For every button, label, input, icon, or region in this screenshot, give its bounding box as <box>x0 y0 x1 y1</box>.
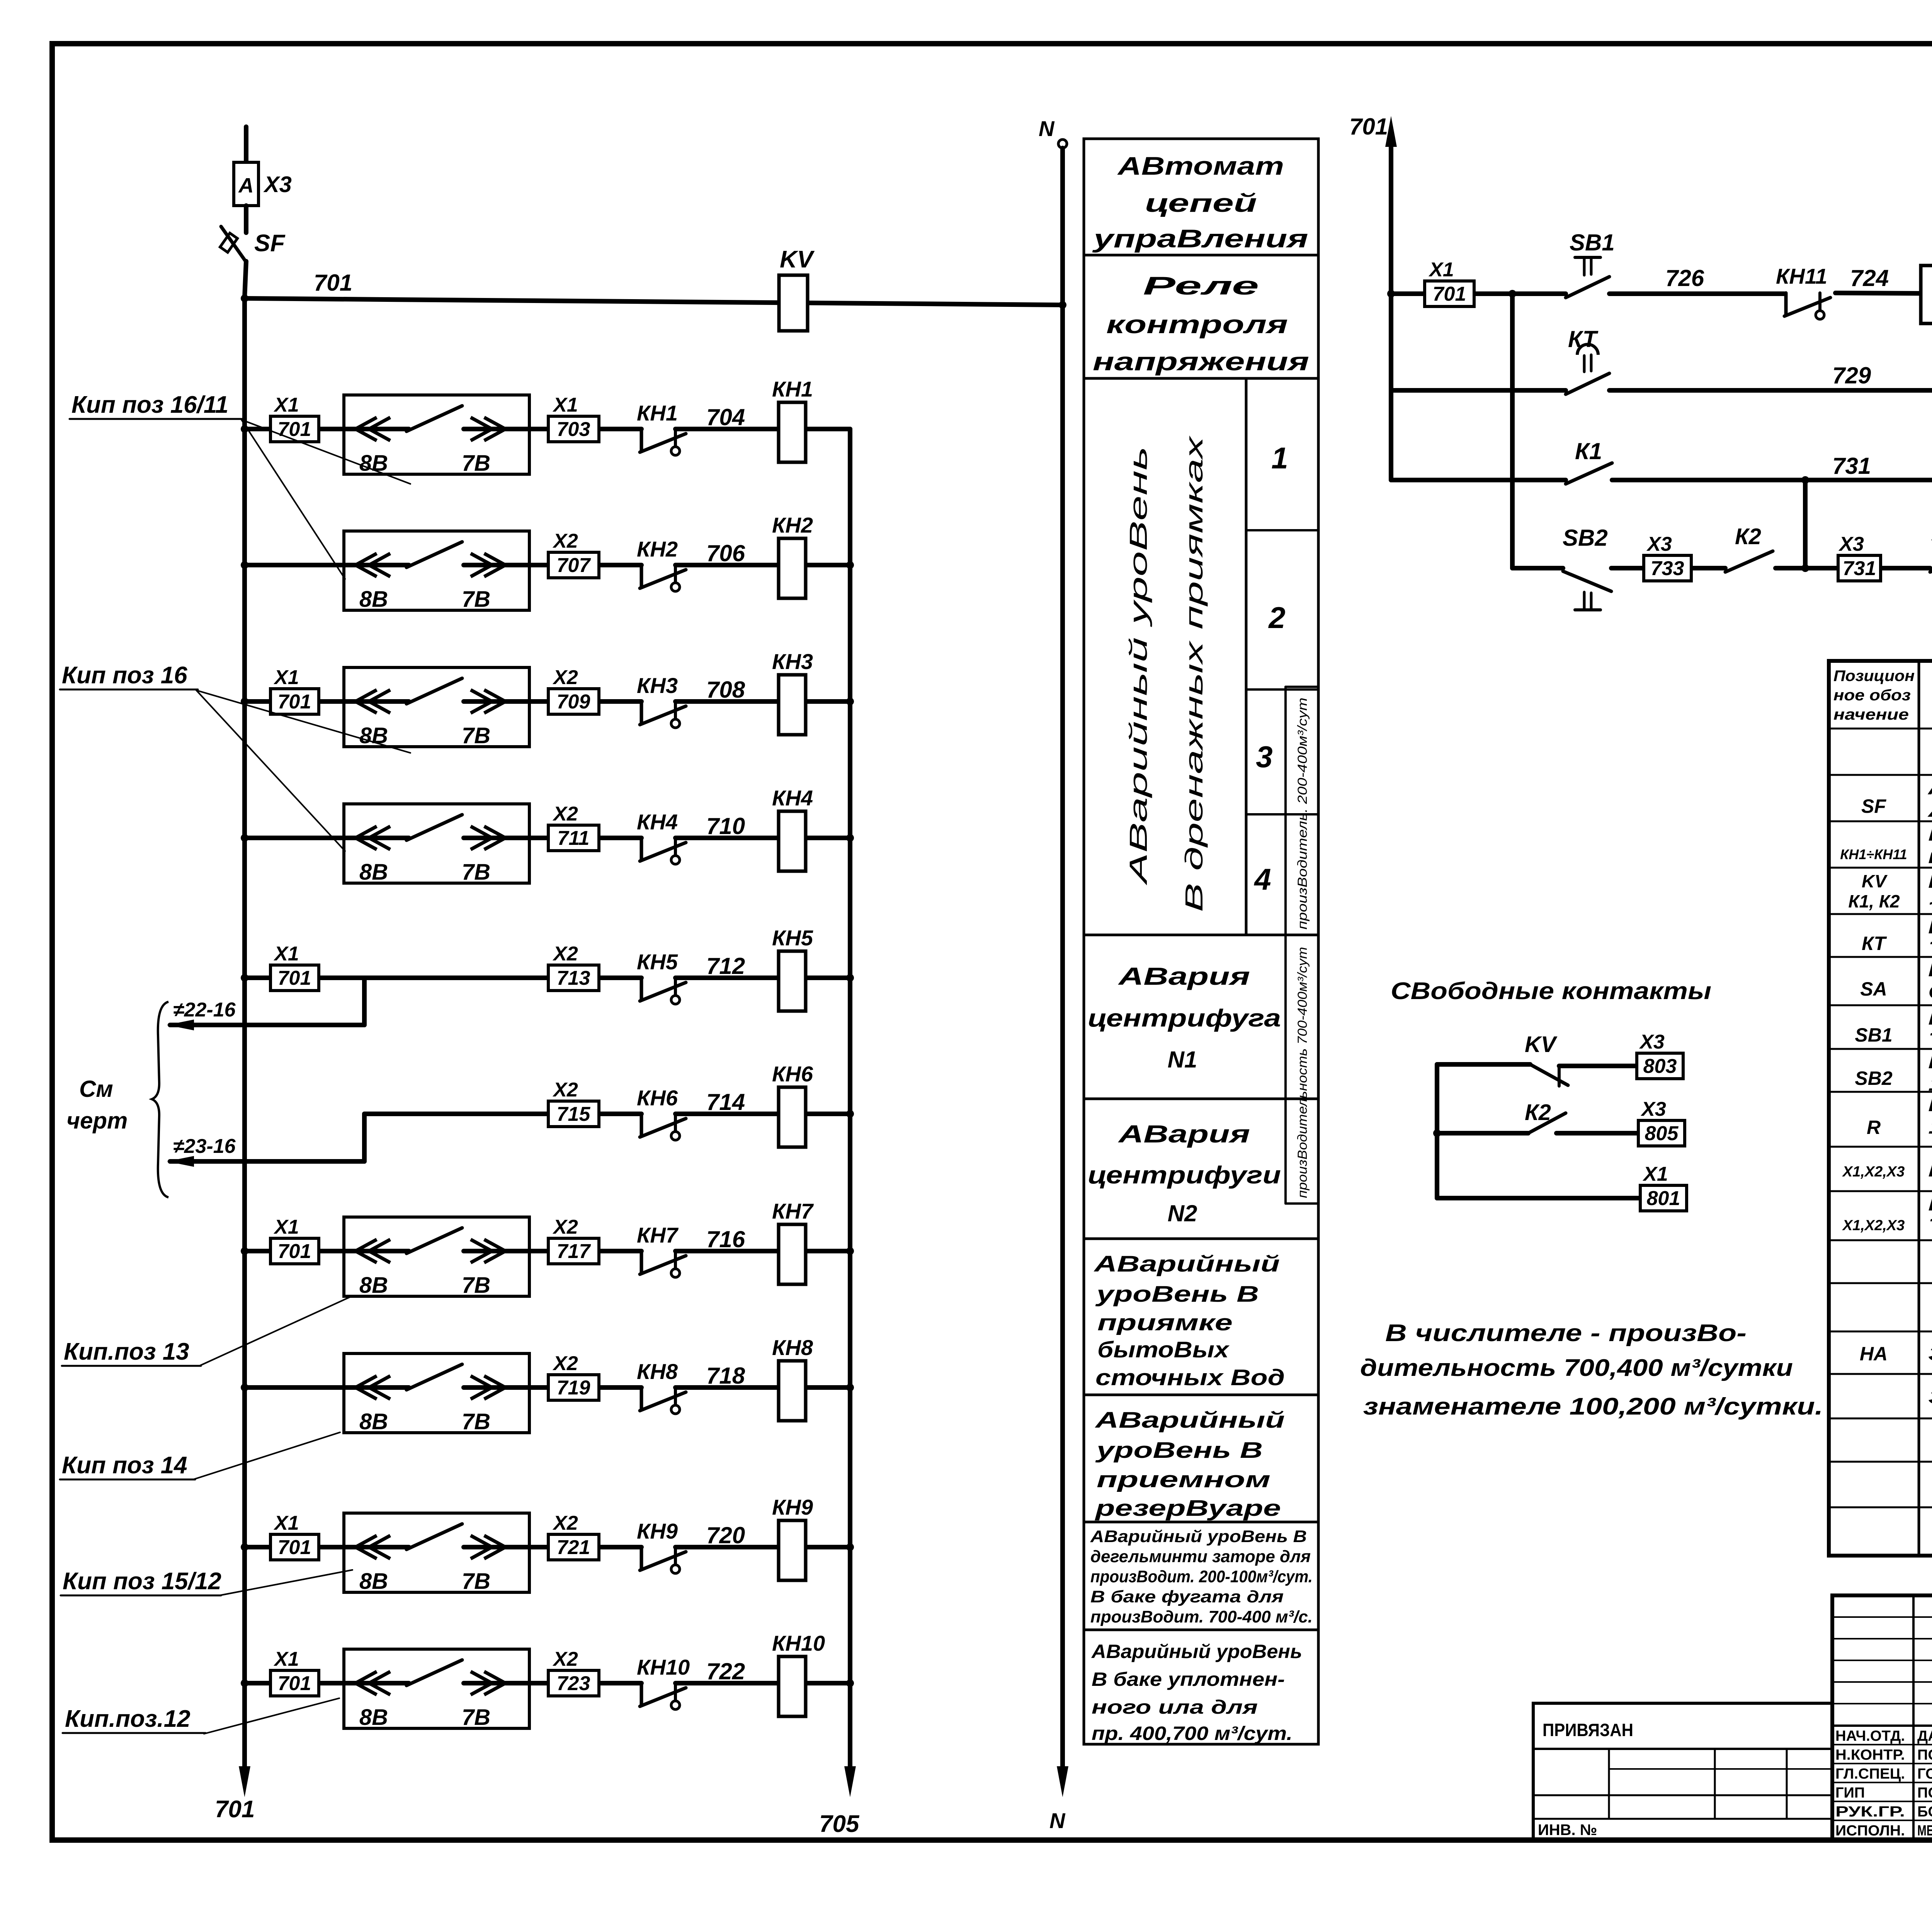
svg-text:Схема Д103 рук.реВ.ТУ16.526.04: Схема Д103 рук.реВ.ТУ16.526.047-74 <box>1928 981 1932 1003</box>
svg-text:701: 701 <box>278 967 311 989</box>
svg-text:КН7: КН7 <box>637 1223 679 1247</box>
svg-text:X1: X1 <box>273 1216 299 1238</box>
svg-text:N: N <box>1049 1808 1066 1833</box>
connector X1 pin 701 rung 9 <box>270 1534 319 1560</box>
svg-text:знаменателе 100,200 м³/сутки.: знаменателе 100,200 м³/сутки. <box>1363 1393 1823 1420</box>
svg-text:ное обоз: ное обоз <box>1833 687 1911 704</box>
svg-text:SА: SА <box>1860 978 1887 1000</box>
wire stub above connector A/X3 <box>244 127 248 162</box>
svg-text:Кип поз 16/11: Кип поз 16/11 <box>71 392 228 418</box>
svg-text:ГОЛЬЦМАН: ГОЛЬЦМАН <box>1917 1766 1932 1782</box>
svg-text:КН4: КН4 <box>772 786 813 810</box>
conductor 701 vertical (right section) with up arrow <box>1389 129 1393 480</box>
node junction of bus 701 <box>241 295 248 302</box>
svg-text:7В: 7В <box>462 1409 490 1434</box>
contact КН3 <box>640 701 643 724</box>
contact KV <box>1530 1064 1568 1085</box>
svg-text:X1: X1 <box>273 1648 299 1670</box>
svg-text:712: 712 <box>706 953 745 979</box>
svg-text:БОЕВА: БОЕВА <box>1917 1804 1932 1820</box>
svg-text:≠23-16: ≠23-16 <box>173 1135 236 1158</box>
svg-text:произВодит. 200-100м³/сут.: произВодит. 200-100м³/сут. <box>1090 1567 1313 1586</box>
switch SA <box>1930 553 1932 572</box>
svg-text:714: 714 <box>706 1089 745 1115</box>
wire rung 5 from contact КН5 to coil and bus 705 <box>675 975 850 980</box>
svg-text:731: 731 <box>1843 557 1876 580</box>
cell Аварийный уровень в дренажных приямках (rotated) <box>1245 378 1248 935</box>
svg-text:уроВень В: уроВень В <box>1095 1282 1259 1307</box>
connector X1 pin 801 <box>1640 1185 1687 1211</box>
svg-text:X1: X1 <box>273 394 299 416</box>
wire X1 801 row <box>1437 1196 1640 1200</box>
svg-text:X2: X2 <box>552 1216 578 1238</box>
svg-text:701: 701 <box>278 418 311 441</box>
level sensor switch rung 2 (КИП) with plugs 8В 7В <box>344 531 529 610</box>
svg-text:напряжения: напряжения <box>1093 347 1309 376</box>
svg-text:АВария: АВария <box>1117 1120 1250 1148</box>
svg-text:723: 723 <box>557 1672 590 1695</box>
contact КН4 <box>640 838 643 860</box>
node 701 row1 junction <box>1387 290 1395 298</box>
svg-text:произВодительность 700-400м³/с: произВодительность 700-400м³/сут <box>1295 947 1310 1198</box>
connector X1 pin 701 (row1) <box>1425 281 1474 306</box>
svg-text:719: 719 <box>557 1377 590 1399</box>
connector X1 pin 701 rung 7 <box>270 1238 319 1264</box>
contact КН10 <box>640 1683 643 1706</box>
svg-text:X2: X2 <box>552 1648 578 1670</box>
svg-text:КН5: КН5 <box>637 950 678 974</box>
svg-text:X1,X2,X3: X1,X2,X3 <box>1842 1164 1905 1180</box>
relay coil КН7 <box>779 1224 806 1284</box>
contact КН8 <box>640 1387 643 1410</box>
svg-text:К2: К2 <box>1735 524 1761 549</box>
svg-text:бытоВых: бытоВых <box>1097 1337 1230 1362</box>
node rung 10 on bus 705 <box>846 1679 854 1687</box>
connector X2 pin 723 rung 10 <box>548 1670 599 1696</box>
svg-text:ГЛ.СПЕЦ.: ГЛ.СПЕЦ. <box>1835 1766 1905 1782</box>
svg-text:703: 703 <box>557 418 590 441</box>
svg-text:2: 2 <box>1268 601 1285 635</box>
wire rung 6 from contact КН6 to coil and bus 705 <box>675 1112 850 1116</box>
wire K2 contact row <box>1437 1131 1528 1135</box>
svg-text:упраВления: упраВления <box>1092 224 1308 253</box>
svg-text:КН11: КН11 <box>1776 264 1827 288</box>
svg-text:8В: 8В <box>359 451 388 476</box>
svg-text:8В: 8В <box>359 587 388 612</box>
wire rung 1 from bus to contact КН1 <box>245 427 409 431</box>
svg-text:Кип поз 14: Кип поз 14 <box>62 1452 187 1479</box>
svg-text:Резистор ПЭВР100, R470 Ом: Резистор ПЭВР100, R470 Ом <box>1928 1093 1932 1116</box>
node rung 5 on bus 705 <box>846 974 854 982</box>
svg-text:708: 708 <box>706 677 745 703</box>
svg-text:КН8: КН8 <box>772 1335 813 1360</box>
connector X2 pin 715 rung 6 <box>548 1101 599 1127</box>
svg-text:ТУ16.526.216-78: ТУ16.526.216-78 <box>1928 1029 1932 1052</box>
node branch to SB2 row <box>1509 290 1516 298</box>
connector X1 pin 701 rung 3 <box>270 689 319 714</box>
svg-text:ДАНИЛОВ: ДАНИЛОВ <box>1917 1728 1932 1744</box>
svg-text:центрифуга: центрифуга <box>1088 1004 1281 1032</box>
svg-text:ПРИВЯЗАН: ПРИВЯЗАН <box>1543 1720 1633 1740</box>
svg-text:цепей: цепей <box>1145 189 1257 217</box>
svg-text:8В: 8В <box>359 1705 388 1730</box>
svg-text:В баке фугата для: В баке фугата для <box>1090 1587 1284 1606</box>
svg-text:733: 733 <box>1651 557 1684 580</box>
svg-text:произВодитель. 200-400м³/сут: произВодитель. 200-400м³/сут <box>1295 698 1310 930</box>
svg-text:ЗВонок электрический: ЗВонок электрический <box>1928 1343 1932 1365</box>
level sensor switch rung 10 (КИП) with plugs 8В 7В <box>344 1649 529 1728</box>
svg-text:приямке: приямке <box>1097 1310 1233 1335</box>
contact КН1 <box>640 429 643 451</box>
svg-text:черт: черт <box>66 1108 128 1134</box>
svg-text:Кип.поз 13: Кип.поз 13 <box>64 1338 189 1365</box>
title block left grid horizontals <box>1832 1616 1932 1618</box>
svg-text:Позицион: Позицион <box>1833 667 1915 684</box>
svg-text:КН3: КН3 <box>772 649 813 674</box>
bus 701 vertical left <box>242 298 247 1766</box>
svg-text:R: R <box>1867 1117 1881 1138</box>
svg-text:724: 724 <box>1850 265 1889 291</box>
level sensor switch rung 9 (КИП) with plugs 8В 7В <box>344 1513 529 1592</box>
relay coil КН1 <box>779 402 806 462</box>
node rung 8 on bus 705 <box>846 1384 854 1391</box>
svg-text:3: 3 <box>1256 740 1272 774</box>
node rung 3 on bus 705 <box>846 698 854 705</box>
connector X3 pin 731 <box>1838 555 1881 581</box>
svg-text:N: N <box>1039 116 1055 141</box>
parts table outer border <box>1829 661 1932 1556</box>
contact КН11 <box>1784 293 1788 315</box>
svg-text:X2: X2 <box>552 803 578 825</box>
svg-text:X2: X2 <box>552 943 578 965</box>
node rung 5 on bus 701 <box>241 974 248 982</box>
svg-text:КН6: КН6 <box>637 1086 678 1110</box>
wire rung 2 from contact КН2 to coil and bus 705 <box>675 563 850 567</box>
svg-text:ИНВ. №: ИНВ. № <box>1538 1822 1597 1839</box>
svg-text:X1: X1 <box>273 1512 299 1534</box>
svg-text:АВтоматический Выключатель: АВтоматический Выключатель <box>1927 776 1932 799</box>
privyazan grid <box>1608 1749 1610 1819</box>
svg-text:КН3: КН3 <box>637 673 678 698</box>
node rung 7 on bus 705 <box>846 1247 854 1255</box>
svg-text:KV: KV <box>1525 1032 1558 1057</box>
svg-text:X1,X2,X3: X1,X2,X3 <box>1842 1217 1905 1234</box>
svg-text:N2: N2 <box>1168 1200 1197 1226</box>
pushbutton SB1 <box>1566 277 1609 298</box>
wire row4 bell circuit <box>1512 566 1563 570</box>
svg-text:731: 731 <box>1832 453 1871 479</box>
wire rung 4 from contact КН4 to coil and bus 705 <box>675 836 850 840</box>
svg-text:начение: начение <box>1833 706 1909 723</box>
svg-text:7В: 7В <box>462 451 490 476</box>
relay coil KV voltage-monitoring <box>779 275 808 331</box>
svg-text:X2: X2 <box>552 1512 578 1534</box>
wire rung 10 from contact КН10 to coil and bus 705 <box>675 1681 850 1685</box>
svg-text:701: 701 <box>215 1796 255 1823</box>
svg-text:X1: X1 <box>273 666 299 689</box>
svg-text:Реле сигнальное РУ1-11-УЗ-05: Реле сигнальное РУ1-11-УЗ-05А <box>1928 823 1932 845</box>
svg-text:SF: SF <box>1861 795 1886 817</box>
svg-text:А: А <box>238 174 254 197</box>
svg-text:К1: К1 <box>1575 438 1602 464</box>
svg-text:≠22-16: ≠22-16 <box>173 999 236 1021</box>
node row4 branch junction <box>1801 564 1809 572</box>
svg-text:контроля: контроля <box>1106 310 1288 339</box>
connector A X3 <box>234 162 259 206</box>
parts table column lines <box>1918 661 1920 1556</box>
wire 726 <box>1609 291 1784 296</box>
title block left grid verticals <box>1912 1595 1915 1840</box>
svg-text:701: 701 <box>278 1536 311 1559</box>
svg-text:ного ила для: ного ила для <box>1092 1696 1258 1718</box>
svg-text:704: 704 <box>706 404 745 430</box>
relay coil КН5 <box>779 951 806 1011</box>
svg-text:729: 729 <box>1832 363 1871 388</box>
wire rung 10 from bus to contact КН10 <box>245 1681 409 1685</box>
svg-text:ИСПОЛН.: ИСПОЛН. <box>1835 1823 1905 1839</box>
svg-text:SB2: SB2 <box>1563 525 1608 551</box>
svg-text:КН4: КН4 <box>637 810 678 834</box>
wire row2 729 from 701 to K1 coil and N <box>1391 388 1566 393</box>
wire branch from rung 5 down to outgoing line 22-16 <box>362 978 367 1025</box>
svg-text:8В: 8В <box>359 1273 388 1298</box>
wire rung 6 from bus to contact КН6 <box>364 1112 641 1116</box>
connector X3 pin 803 <box>1637 1053 1683 1079</box>
svg-text:МЕНОВЩИКОВА: МЕНОВЩИКОВА <box>1917 1823 1932 1839</box>
svg-text:КН10: КН10 <box>772 1631 825 1655</box>
svg-text:X3: X3 <box>1640 1098 1666 1120</box>
wire rung 8 from contact КН8 to coil and bus 705 <box>675 1385 850 1390</box>
svg-text:X1: X1 <box>1428 259 1454 281</box>
node rung 2 on bus 701 <box>241 561 248 569</box>
svg-text:Колодка торцеВая. КТЗУ: Колодка торцеВая. КТЗУ <box>1928 1193 1932 1215</box>
svg-text:X1: X1 <box>1642 1163 1668 1185</box>
connector X3 pin 733 <box>1644 555 1691 581</box>
wire row1 701 to SB1 <box>1391 291 1566 296</box>
privyazan box <box>1533 1703 1832 1840</box>
svg-text:ПОСТНИКОВА: ПОСТНИКОВА <box>1917 1747 1932 1763</box>
svg-text:7В: 7В <box>462 1569 490 1594</box>
svg-text:7В: 7В <box>462 723 490 748</box>
title block outer box <box>1832 1595 1932 1840</box>
function column box <box>1084 139 1318 1744</box>
svg-text:707: 707 <box>557 554 591 577</box>
node rung 2 on bus 705 <box>846 561 854 569</box>
connector X2 pin 713 rung 5 <box>548 965 599 991</box>
svg-text:805: 805 <box>1645 1122 1679 1145</box>
connector X1 pin 701 rung 5 <box>270 965 319 991</box>
svg-text:АВарийный: АВарийный <box>1094 1408 1285 1433</box>
svg-text:КН2: КН2 <box>637 537 678 561</box>
svg-text:СВободные контакты: СВободные контакты <box>1391 978 1711 1004</box>
connector X2 pin 707 rung 2 <box>548 552 599 578</box>
svg-text:705: 705 <box>819 1811 860 1837</box>
svg-text:АВарийный уроВень: АВарийный уроВень <box>1091 1641 1302 1662</box>
svg-text:НА: НА <box>1860 1343 1888 1365</box>
svg-text:КТ: КТ <box>1568 326 1599 352</box>
svg-text:701: 701 <box>1433 283 1466 305</box>
svg-text:SF: SF <box>254 230 286 257</box>
node rung 8 on bus 701 <box>241 1384 248 1391</box>
svg-text:131Р. ТУ16.526.216-78: 131Р. ТУ16.526.216-78 <box>1928 1073 1932 1095</box>
relay coil КН6 <box>779 1087 806 1147</box>
parts table row lines <box>1829 728 1932 730</box>
svg-text:Н.КОНТР.: Н.КОНТР. <box>1835 1747 1905 1763</box>
svg-text:720: 720 <box>706 1522 745 1548</box>
relay coil КН9 <box>779 1520 806 1580</box>
node rung 10 on bus 701 <box>241 1679 248 1687</box>
svg-text:X1: X1 <box>552 394 578 416</box>
svg-text:X3: X3 <box>1639 1031 1665 1053</box>
contact КН9 <box>640 1547 643 1570</box>
level sensor switch rung 7 (КИП) with plugs 8В 7В <box>344 1217 529 1296</box>
wire rung 3 from bus to contact КН3 <box>245 699 409 704</box>
svg-text:КН2: КН2 <box>772 513 813 537</box>
node rung 9 on bus 701 <box>241 1543 248 1551</box>
svg-text:В баке уплотнен-: В баке уплотнен- <box>1092 1668 1285 1690</box>
svg-text:711: 711 <box>558 827 590 849</box>
svg-text:726: 726 <box>1665 265 1704 291</box>
svg-text:См: См <box>79 1076 113 1102</box>
svg-text:КН9: КН9 <box>772 1495 813 1519</box>
svg-text:7В: 7В <box>462 1273 490 1298</box>
svg-text:718: 718 <box>706 1363 745 1389</box>
connector X2 pin 717 rung 7 <box>548 1238 599 1264</box>
connector X1 pin 701 rung 1 <box>270 416 319 442</box>
svg-text:К2: К2 <box>1525 1100 1551 1125</box>
contact КН7 <box>640 1251 643 1273</box>
wire rung 7 from bus to contact КН7 <box>245 1249 409 1253</box>
svg-text:717: 717 <box>557 1240 591 1263</box>
svg-text:706: 706 <box>706 540 745 566</box>
svg-text:КН1: КН1 <box>637 401 678 425</box>
svg-text:ГИП: ГИП <box>1835 1785 1865 1801</box>
wire rung 9 from contact КН9 to coil and bus 705 <box>675 1545 850 1549</box>
svg-text:АВарийный уроВень: АВарийный уроВень <box>1124 446 1152 886</box>
svg-text:X2: X2 <box>552 666 578 689</box>
svg-text:пр. 400,700 м³/сут.: пр. 400,700 м³/сут. <box>1092 1723 1293 1744</box>
svg-text:дительность 700,400 м³/сутки: дительность 700,400 м³/сутки <box>1360 1355 1793 1381</box>
narrow rotated column производительность 700-400 <box>1284 935 1287 1204</box>
wire A box to SF breaker <box>244 206 248 233</box>
svg-text:8В: 8В <box>359 860 388 885</box>
svg-text:КН6: КН6 <box>772 1062 813 1086</box>
svg-text:КН1: КН1 <box>772 377 813 401</box>
svg-text:КН10: КН10 <box>637 1655 690 1679</box>
circuit breaker SF <box>221 226 246 262</box>
wire row3 731 from 701 to K2 coil and N <box>1391 478 1566 482</box>
connector X3 pin 805 <box>1638 1120 1685 1146</box>
svg-text:КН7: КН7 <box>772 1199 814 1223</box>
svg-text:716: 716 <box>706 1226 745 1252</box>
svg-text:SB2: SB2 <box>1855 1067 1892 1089</box>
relay coil КН2 <box>779 538 806 598</box>
svg-text:X3: X3 <box>1838 533 1864 555</box>
contact КН6 <box>640 1114 643 1136</box>
pushbutton SB2 <box>1563 571 1611 591</box>
node rung 1 on bus 701 <box>241 425 248 433</box>
wire rung 9 from bus to contact КН9 <box>245 1545 409 1549</box>
svg-text:N1: N1 <box>1168 1047 1197 1073</box>
connector X1 pin 701 rung 10 <box>270 1670 319 1696</box>
wire rung 4 from bus to contact КН4 <box>245 836 409 840</box>
wire rung 7 from contact КН7 to coil and bus 705 <box>675 1249 850 1253</box>
svg-text:SB1: SB1 <box>1570 230 1615 255</box>
svg-text:8В: 8В <box>359 1569 388 1594</box>
wire branch feeding rung 6 from line 23-16 <box>362 1114 367 1161</box>
svg-text:Реле: Реле <box>1143 271 1259 300</box>
svg-text:Кнопка ПКЕ122-1УЗ толк. красн.: Кнопка ПКЕ122-1УЗ толк. красн. <box>1928 1050 1932 1073</box>
contact К2 (row4) <box>1725 551 1773 572</box>
svg-text:АВарийный: АВарийный <box>1093 1251 1280 1277</box>
wire rung 2 from bus to contact КН2 <box>245 563 409 567</box>
svg-text:X3: X3 <box>263 172 292 197</box>
wire bracket free contacts <box>1435 1064 1439 1198</box>
narrow rotated column производитель 200-400 <box>1284 687 1287 935</box>
svg-text:701: 701 <box>1349 114 1388 140</box>
svg-text:АВтомат: АВтомат <box>1117 152 1284 180</box>
node rung 6 on bus 705 <box>846 1110 854 1118</box>
svg-text:701: 701 <box>278 1240 311 1263</box>
svg-text:701: 701 <box>278 1672 311 1695</box>
connector X2 pin 721 rung 9 <box>548 1534 599 1560</box>
svg-text:К1, К2: К1, К2 <box>1848 891 1900 911</box>
svg-text:Кнопка ПКЕ122-1УЗ 131Р: Кнопка ПКЕ122-1УЗ 131Р <box>1928 1007 1932 1029</box>
node branch row3 to row4 <box>1801 476 1809 484</box>
svg-text:ТУ16-526.462-79: ТУ16-526.462-79 <box>1928 1215 1932 1238</box>
svg-text:центрифуги: центрифуги <box>1088 1161 1281 1189</box>
svg-text:709: 709 <box>557 691 590 713</box>
svg-text:7В: 7В <box>462 587 490 612</box>
sub-cells numbered 1-4 <box>1246 529 1318 531</box>
wire branch row3 down to row4 <box>1803 480 1808 568</box>
level sensor switch rung 8 (КИП) with plugs 8В 7В <box>344 1353 529 1433</box>
svg-text:резерВуаре: резерВуаре <box>1094 1496 1281 1521</box>
node junction 701 line at N conductor <box>1059 301 1066 309</box>
connector X2 pin 719 rung 8 <box>548 1375 599 1400</box>
svg-text:КТ: КТ <box>1862 933 1887 954</box>
svg-text:722: 722 <box>706 1658 745 1684</box>
contact КН2 <box>640 565 643 587</box>
wire 701 horizontal to KV and N <box>245 298 1063 305</box>
node rung 4 on bus 705 <box>846 834 854 842</box>
connector X1 pin 703 rung 1 <box>548 416 599 442</box>
wire KV contact row <box>1437 1062 1530 1067</box>
svg-text:АВария: АВария <box>1117 962 1250 990</box>
svg-text:710: 710 <box>706 813 745 839</box>
wire rung 8 from bus to contact КН8 <box>245 1385 409 1390</box>
contact К2 (free) <box>1528 1113 1566 1133</box>
wire branch down to SB2 row <box>1510 294 1515 568</box>
svg-text:КН1÷КН11: КН1÷КН11 <box>1840 846 1907 862</box>
svg-text:~220В, ТУ16.523.554-78: ~220В, ТУ16.523.554-78 <box>1928 892 1932 915</box>
connector X2 pin 711 rung 4 <box>548 825 599 851</box>
svg-text:721: 721 <box>557 1536 590 1559</box>
contact КН5 <box>640 978 643 1000</box>
node K2 contact row <box>1433 1129 1441 1137</box>
svg-text:произВодит. 700-400 м³/с.: произВодит. 700-400 м³/с. <box>1090 1607 1313 1626</box>
relay coil КН4 <box>779 811 806 871</box>
svg-text:Кип.поз.12: Кип.поз.12 <box>65 1706 190 1732</box>
svg-text:ТУ16.523.554-78: ТУ16.523.554-78 <box>1928 938 1932 960</box>
svg-text:РУК.ГР.: РУК.ГР. <box>1835 1804 1905 1820</box>
relay coil on row1 (signal relay) <box>1921 266 1932 323</box>
svg-text:НАЧ.ОТД.: НАЧ.ОТД. <box>1835 1728 1905 1744</box>
svg-text:Переключатель ПКУЗ-12И-УЗ: Переключатель ПКУЗ-12И-УЗ <box>1928 958 1932 981</box>
svg-text:801: 801 <box>1647 1187 1680 1210</box>
node rung 4 on bus 701 <box>241 834 248 842</box>
svg-text:10%, ГОСТ 6513-66: 10%, ГОСТ 6513-66 <box>1928 1116 1932 1138</box>
